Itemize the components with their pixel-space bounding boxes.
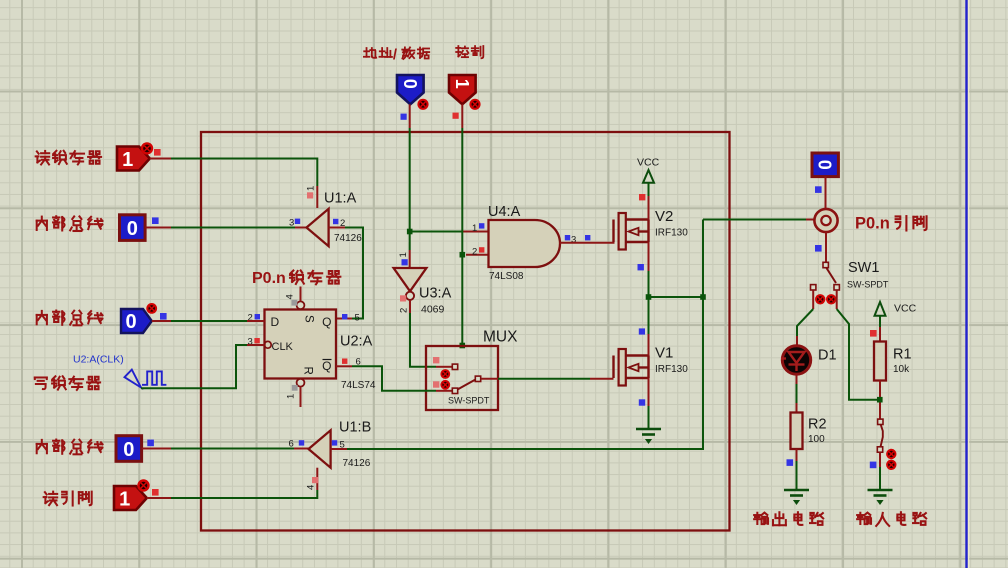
state square	[154, 149, 161, 156]
svg-text:1: 1	[398, 252, 409, 257]
svg-text:0: 0	[123, 439, 134, 461]
MUX toggle markers	[440, 369, 450, 379]
svg-text:Q: Q	[322, 359, 331, 373]
R pin stub	[300, 387, 302, 407]
state square	[815, 186, 822, 193]
terminal P0.n pin	[814, 209, 837, 232]
wire U4:A out to V2 gate	[560, 242, 615, 244]
junction	[700, 294, 706, 300]
state square	[160, 313, 167, 320]
junction at MUX top	[460, 343, 466, 349]
wire 内部总线1 to U1:A pin3	[146, 227, 172, 229]
label 输入电路	[857, 512, 926, 526]
svg-text:10k: 10k	[893, 364, 910, 375]
label 内部总线 (bottom)	[37, 440, 103, 455]
sheet border (blue)	[965, 0, 967, 568]
svg-text:SW1: SW1	[848, 260, 879, 276]
pin2 square	[400, 295, 406, 301]
svg-text:1: 1	[119, 488, 130, 510]
pin3 squares	[565, 235, 570, 240]
junction R1/switch	[877, 397, 883, 403]
label 读锁存器	[36, 151, 101, 165]
MOSFET V2 (IRF130)	[614, 213, 649, 250]
port-structure boundary box	[201, 132, 730, 531]
svg-text:3: 3	[289, 218, 294, 229]
wire 内部总线3 to U1:B pin6	[142, 448, 171, 450]
svg-text:4069: 4069	[421, 304, 445, 316]
wire probe to pin	[825, 177, 827, 209]
AND gate U4:A	[489, 220, 561, 267]
svg-text:V2: V2	[655, 208, 673, 225]
svg-text:D: D	[271, 315, 280, 329]
VCC symbol above V2	[643, 170, 654, 183]
svg-text:0: 0	[400, 79, 420, 89]
pin6 square	[299, 440, 304, 445]
wire clock to CLK pin	[141, 345, 247, 388]
label 控制	[456, 46, 483, 58]
state square	[870, 462, 877, 469]
wire 内部总线2 to D	[152, 320, 171, 322]
state square	[870, 330, 877, 337]
svg-text:5: 5	[355, 313, 360, 324]
svg-text:4: 4	[306, 485, 317, 490]
state square	[152, 489, 159, 496]
svg-text:P0.n: P0.n	[855, 215, 890, 233]
marker	[146, 303, 157, 314]
inverter U3:A	[394, 268, 427, 291]
marker on 读锁存器 probe	[141, 142, 153, 154]
svg-text:1: 1	[122, 149, 133, 171]
wire 控制 down to U4:A pin2 and MUX	[461, 104, 463, 128]
wire 读引脚 to U1:B pin4	[147, 497, 171, 499]
pin2 square	[255, 314, 260, 319]
pin4 square	[292, 300, 298, 306]
state square	[401, 114, 407, 120]
MUX switch throw2 contact	[452, 388, 457, 393]
label 内部总线 (top)	[37, 216, 103, 231]
input switch markers	[886, 449, 896, 459]
pin5 square	[332, 440, 337, 445]
wire pin to SW1	[825, 232, 827, 262]
wire U1:B pin5 from P0.n net	[331, 448, 347, 450]
marker	[137, 479, 149, 491]
wire V2 source to V1 drain (P0.n node)	[648, 242, 650, 271]
logicstate 内部总线 #1 (0)	[120, 215, 146, 241]
svg-text:1: 1	[452, 79, 472, 89]
VCC right	[875, 302, 886, 316]
switch SW1 (SW-SPDT)	[823, 262, 828, 267]
wire V1 source to ground	[648, 378, 650, 406]
junction	[407, 229, 413, 235]
svg-text:U2:A(CLK): U2:A(CLK)	[73, 354, 124, 366]
svg-text:74126: 74126	[334, 233, 362, 244]
svg-text:D1: D1	[818, 348, 837, 364]
svg-text:P0.n: P0.n	[252, 270, 286, 287]
MUX pin squares	[433, 357, 439, 363]
junction	[460, 252, 466, 258]
logicstate 内部总线 #3 (0)	[116, 436, 142, 462]
label 写锁存器	[35, 376, 100, 390]
wire VCC to V2 drain	[648, 183, 650, 196]
resistor R1 (10k)	[874, 342, 886, 381]
logicstate 读引脚 (1)	[114, 486, 147, 510]
wire node to P0.n vertical	[649, 296, 704, 298]
svg-text:R1: R1	[893, 347, 912, 363]
svg-text:IRF130: IRF130	[655, 364, 688, 375]
wire node to P0.n pin	[703, 219, 806, 221]
svg-text:V1: V1	[655, 345, 673, 362]
svg-text:1: 1	[472, 223, 477, 234]
pin5 square	[342, 314, 347, 319]
svg-text:S: S	[303, 315, 315, 323]
wire 地址/数据 down to U3:A and U4:A pin1	[409, 104, 411, 128]
R-pin bubble	[297, 379, 305, 387]
wire SW1 throw-left to D1	[812, 290, 814, 309]
pin1 square	[307, 192, 313, 198]
label 内部总线 (latch D)	[37, 311, 103, 326]
label 读引脚	[44, 491, 92, 505]
svg-text:U1:B: U1:B	[339, 420, 371, 436]
pin3 square	[254, 338, 259, 343]
pin1 square	[402, 259, 408, 265]
MOSFET V1 (IRF130)	[614, 349, 649, 386]
svg-text:U4:A: U4:A	[488, 204, 521, 220]
wire switch to ground	[879, 453, 881, 468]
clock generator glyph	[125, 370, 167, 388]
svg-text:VCC: VCC	[637, 157, 660, 169]
state square	[453, 113, 459, 119]
svg-text:U2:A: U2:A	[340, 334, 373, 350]
squares	[638, 264, 644, 270]
svg-text:74LS74: 74LS74	[341, 380, 376, 391]
svg-text:VCC: VCC	[894, 303, 917, 315]
svg-text:MUX: MUX	[483, 329, 518, 346]
state square	[787, 459, 794, 466]
svg-text:CLK: CLK	[272, 341, 294, 353]
svg-text:2: 2	[472, 247, 477, 258]
svg-text:1: 1	[306, 186, 317, 191]
MUX switch pole contact	[475, 376, 480, 381]
svg-text:6: 6	[289, 439, 294, 450]
state square	[152, 217, 159, 224]
D flip-flop U2:A body	[265, 310, 337, 379]
svg-text:Q: Q	[322, 315, 331, 329]
wire R1 to node	[879, 381, 881, 398]
SW1 toggle markers	[815, 294, 825, 304]
svg-text:SW-SPDT: SW-SPDT	[847, 280, 889, 290]
wire 读锁存器 to U1:A pin1	[150, 158, 171, 160]
svg-text:U1:A: U1:A	[324, 191, 357, 207]
wire MUX pole to V1 gate	[481, 378, 498, 380]
U1:B pin4 stub	[316, 468, 318, 490]
logicstate 地址/数据 (0)	[397, 75, 424, 104]
pin2 square	[333, 219, 338, 224]
svg-text:R2: R2	[808, 417, 827, 433]
MUX box	[426, 346, 498, 410]
ground under input switch	[868, 490, 893, 504]
svg-text:4: 4	[285, 294, 296, 299]
svg-text:0: 0	[125, 311, 136, 333]
pin6 square	[342, 359, 347, 364]
svg-text:SW-SPDT: SW-SPDT	[448, 396, 490, 406]
ground under R2	[784, 490, 809, 504]
pin2 square	[479, 247, 484, 252]
state square	[639, 194, 645, 200]
logicstate 内部总线 #2 (0)	[121, 309, 152, 333]
svg-text:74126: 74126	[343, 458, 371, 469]
label 输出电路	[754, 512, 823, 525]
logicstate P0.n (0)	[812, 153, 838, 177]
logicstate 读锁存器 (1)	[117, 147, 150, 171]
state square	[639, 399, 645, 405]
S pin stub	[300, 287, 302, 302]
marker	[417, 99, 428, 110]
resistor R2 (100)	[791, 413, 803, 450]
MUX switch throw1 contact	[452, 364, 457, 369]
pin1 square	[292, 385, 298, 391]
svg-text:0: 0	[815, 160, 835, 170]
svg-text:/: /	[393, 46, 398, 63]
svg-text:3: 3	[571, 235, 576, 246]
marker	[469, 99, 480, 110]
svg-text:1: 1	[286, 394, 297, 399]
pin1 square	[479, 223, 484, 228]
svg-text:IRF130: IRF130	[655, 228, 688, 239]
svg-text:100: 100	[808, 434, 825, 445]
LED D1	[782, 346, 810, 374]
wire U3:A out to MUX throw1	[409, 300, 411, 313]
svg-text:U3:A: U3:A	[419, 286, 452, 302]
state square	[815, 245, 822, 252]
wire U1:A pin2 to U2:A Q	[329, 227, 345, 229]
svg-text:74LS08: 74LS08	[489, 271, 524, 282]
state square	[147, 440, 154, 447]
CLK wedge	[264, 341, 271, 348]
svg-text:R: R	[302, 367, 314, 375]
ground under V1	[636, 429, 661, 443]
wire SW1 throw-right to R1 node	[836, 290, 838, 309]
pin3 square	[295, 219, 300, 224]
wire R2 to ground	[796, 449, 798, 461]
wire VCC to R1	[879, 316, 881, 327]
logicstate 控制 (1)	[449, 75, 476, 104]
input switch	[879, 403, 881, 420]
label 地址/数据	[364, 46, 429, 63]
svg-text:2: 2	[399, 308, 410, 313]
wire D1 to R2	[796, 374, 798, 384]
pin4 square	[312, 477, 318, 483]
svg-text:0: 0	[127, 218, 138, 240]
S-pin bubble	[297, 301, 305, 309]
MUX switch lever	[458, 380, 476, 390]
junction V2/V1 node	[646, 294, 652, 300]
tri-state buffer U1:B	[309, 430, 331, 467]
tri-state buffer U1:A	[307, 209, 329, 246]
wire U2:A Qbar to MUX throw2	[336, 365, 352, 367]
